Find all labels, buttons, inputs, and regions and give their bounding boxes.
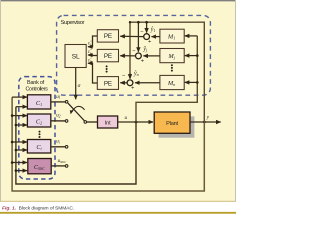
switch contact ui [65, 146, 68, 149]
wire tap into M1 input [185, 35, 198, 37]
wire M1 output to junction 1 [152, 36, 160, 38]
node junction on u wire [135, 121, 138, 124]
svg-text:Bank of: Bank of [27, 80, 45, 86]
switch contact u1 [65, 101, 68, 104]
block C2 (controller 2) [27, 114, 50, 127]
svg-text:Fig. 1.: Fig. 1. [2, 205, 16, 211]
node junction on y wire [203, 121, 206, 124]
block Mj (model j) [160, 49, 184, 63]
svg-text:u1: u1 [56, 94, 61, 100]
wire PE2 output to SL [88, 54, 97, 57]
block PE2 [97, 49, 118, 61]
wire u feedback down to controller input bus [16, 107, 136, 184]
svg-text:Block diagram of SMMAC.: Block diagram of SMMAC. [19, 205, 75, 211]
svg-text:Controllers: Controllers [26, 86, 49, 92]
wire tap into C2 lower input [16, 124, 27, 126]
block C1 (controller 1) [27, 95, 50, 109]
ellipsis dots M column [171, 64, 173, 71]
wire Mn output to junction 3 [135, 82, 160, 84]
wire tap into Mn input [185, 81, 198, 83]
svg-text:ε̂1: ε̂1 [88, 42, 92, 47]
supervisor dashed enclosure [57, 15, 211, 95]
summing junction 1 [144, 34, 150, 40]
svg-text:Int: Int [104, 121, 111, 127]
wire PE1 output to SL [88, 36, 97, 47]
ellipsis dots C column [39, 131, 41, 138]
wire drop into summing circle 2 [137, 22, 139, 52]
wire sigma from SL to switch [75, 68, 77, 100]
wire tap into CNbC lower input [16, 170, 27, 172]
svg-text:uNbC: uNbC [58, 158, 67, 164]
node dot on u bus at C2 tap [15, 124, 18, 127]
svg-text:C2: C2 [36, 118, 42, 125]
svg-text:PE: PE [104, 53, 112, 60]
svg-text:Mn: Mn [167, 80, 175, 87]
wire tap into C2 upper input [12, 115, 27, 117]
block Int (integrator) [98, 116, 118, 128]
wire pivot to Int [87, 121, 98, 123]
svg-text:Supervisor: Supervisor [61, 20, 85, 26]
switch contact u2 [65, 120, 68, 123]
svg-text:SL: SL [72, 54, 80, 61]
block Ci (controller i) [27, 140, 50, 154]
wire C1 output u1 [51, 101, 65, 103]
wire tap into C1 upper input [12, 96, 27, 98]
wire Mj output to junction 2 [143, 55, 160, 57]
node dot on y bus at circle2 drop [137, 21, 140, 24]
wire junction 3 error to PE3 [120, 82, 127, 84]
block SL (switching logic) [65, 45, 86, 68]
wire tap into CNbC upper input [12, 162, 27, 164]
wire PE3 output to SL [88, 63, 97, 83]
wire u from Int to Plant [118, 121, 153, 123]
wire tap into Ci upper input [12, 141, 27, 143]
block M1 (model 1) [160, 29, 184, 43]
svg-text:ui: ui [56, 139, 60, 145]
block Mn (model n) [160, 75, 184, 89]
svg-text:M1: M1 [167, 34, 175, 41]
wire y feedback up to summing junctions [130, 22, 204, 122]
block PE3 [97, 77, 118, 90]
node dot on y bus at circle1 drop [145, 21, 148, 24]
svg-text:ŷ1: ŷ1 [150, 27, 156, 33]
block Plant [154, 112, 194, 138]
svg-text:PE: PE [104, 80, 112, 87]
summing junction 2 [136, 53, 142, 59]
block CNbC (controller NbC) [28, 159, 51, 174]
node dot on y bus at C2 tap [11, 114, 14, 117]
wire u feedback up to model input bus [136, 36, 197, 122]
bank of controllers dashed enclosure [19, 77, 55, 179]
svg-text:PE: PE [104, 33, 112, 40]
svg-text:+: + [141, 59, 145, 65]
wire C2 output u2 [51, 120, 65, 122]
wire tap into Mj input [185, 55, 198, 57]
switch arm [68, 103, 85, 121]
node dot on model bus at Mj tap [196, 54, 199, 57]
svg-text:C1: C1 [36, 100, 42, 107]
node dot on y bus at circle3 drop [129, 21, 131, 23]
node dot on model bus at Mn tap [196, 81, 199, 84]
svg-text:u2: u2 [56, 113, 61, 119]
summing junction 3 [127, 80, 133, 86]
svg-text:Ci: Ci [36, 144, 41, 151]
wire drop into summing circle 1 [146, 22, 148, 32]
svg-text:Mj: Mj [167, 53, 175, 60]
node dot on y bus at Ci tap [11, 141, 14, 144]
wire junction 1 error to PE1 [120, 35, 143, 37]
switch rotation arc [71, 106, 84, 112]
wire arrow into summing circle 3 [129, 74, 131, 79]
wire y from Plant output [190, 121, 221, 123]
node dot on u bus at CNbC tap [15, 169, 18, 172]
wire tap into C1 lower input [16, 106, 27, 108]
switch pivot [84, 121, 87, 124]
block PE1 [97, 30, 118, 42]
switch contact uNbC [65, 165, 68, 168]
svg-text:u: u [125, 115, 128, 121]
svg-text:σ: σ [78, 83, 81, 89]
wire tap into Ci lower input [16, 149, 27, 151]
wire y feedback down to controller input bus [12, 97, 204, 191]
wire Ci output ui [51, 146, 65, 148]
ellipsis dots PE column [106, 65, 108, 72]
svg-text:ŷn: ŷn [133, 71, 139, 77]
svg-text:ε̂n: ε̂n [88, 58, 92, 63]
svg-text:Plant: Plant [166, 121, 178, 127]
wire junction 2 error to PE2 [120, 55, 135, 57]
node dot on y bus at CNbC tap [11, 161, 14, 164]
node dot on u bus at Ci tap [15, 149, 18, 152]
wire CNbC output uNbC [51, 165, 65, 167]
